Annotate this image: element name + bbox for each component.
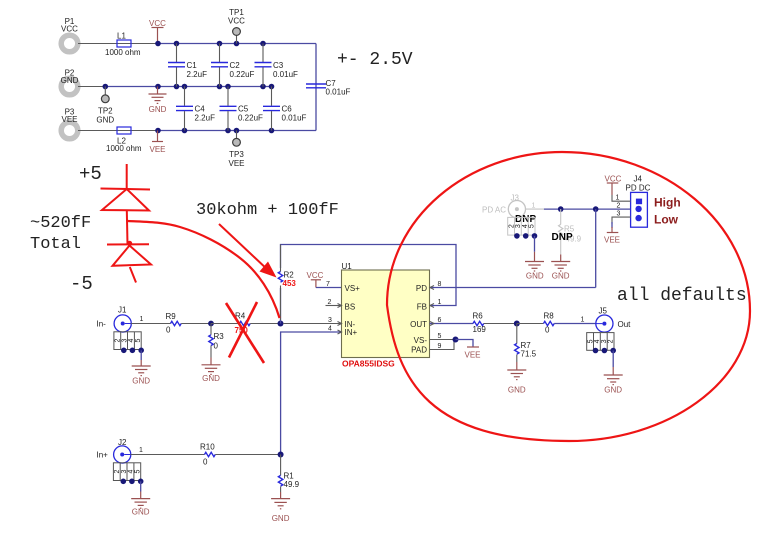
ground symbol R5: [551, 255, 570, 281]
svg-text:DNP: DNP: [552, 232, 573, 243]
svg-text:R6: R6: [473, 312, 484, 321]
svg-text:~520fF: ~520fF: [30, 214, 91, 233]
resistor R7 71.5: [515, 324, 537, 359]
wire right rail VCC to VEE: [315, 44, 317, 131]
wire R4 to IN- node: [250, 323, 280, 325]
svg-text:1: 1: [616, 195, 620, 202]
VEE power symbol (U1): [465, 347, 481, 360]
svg-text:VEE: VEE: [149, 145, 165, 154]
connector J4 PD DC: [626, 175, 651, 228]
svg-text:3: 3: [617, 211, 621, 218]
svg-text:R8: R8: [544, 312, 555, 321]
svg-text:2.2uF: 2.2uF: [187, 70, 208, 79]
resistor R2 453: [277, 245, 296, 321]
op-amp U1 OPA855IDSG: [342, 262, 430, 369]
svg-text:C2: C2: [230, 61, 241, 70]
svg-text:U1: U1: [342, 262, 353, 271]
svg-text:J4: J4: [634, 175, 643, 184]
svg-text:2: 2: [328, 299, 332, 306]
annotation arrow to R2: [219, 224, 277, 278]
svg-text:169: 169: [473, 325, 487, 334]
svg-text:FB: FB: [417, 303, 427, 312]
capacitor C7 0.01uF: [306, 79, 351, 97]
pin 5 VS- stub: [430, 339, 456, 341]
pin 3 J4 wire to VEE: [604, 211, 631, 245]
svg-text:J2: J2: [118, 438, 127, 447]
test point TP3 VEE: [228, 131, 244, 169]
node VS- junction: [453, 337, 459, 343]
node J3 net junction 2: [593, 206, 599, 212]
svg-text:5: 5: [529, 224, 536, 228]
svg-text:GND: GND: [604, 386, 622, 395]
VCC power symbol (top): [149, 19, 166, 44]
svg-text:R3: R3: [214, 332, 225, 341]
svg-text:In-: In-: [97, 320, 107, 329]
test point TP2 GND: [96, 87, 114, 125]
ground symbol R7: [507, 355, 526, 395]
wire J3 to J4 net: [544, 208, 631, 210]
svg-text:VCC: VCC: [605, 175, 622, 184]
connector J3 shield pins (grayed): [508, 217, 538, 238]
svg-text:0: 0: [166, 326, 171, 335]
svg-text:PD: PD: [416, 284, 427, 293]
svg-text:GND: GND: [552, 272, 570, 281]
pin 8 PD wire to J4: [430, 287, 596, 289]
svg-text:453: 453: [283, 279, 297, 288]
svg-text:+5: +5: [79, 163, 102, 185]
pin 9 PAD stub: [430, 341, 455, 350]
svg-text:J3: J3: [511, 194, 520, 203]
connector J5 shield pins 5-2: [587, 333, 616, 354]
svg-text:VCC: VCC: [228, 17, 245, 26]
svg-text:2.2uF: 2.2uF: [195, 114, 216, 123]
wire R6 to node OUT2: [484, 323, 517, 325]
connector J2 In+: [97, 438, 144, 463]
connector J1 In-: [97, 306, 144, 333]
svg-text:GND: GND: [272, 514, 290, 523]
svg-text:VS-: VS-: [414, 336, 428, 345]
capacitor C4 2.2uF: [176, 87, 215, 131]
svg-text:0.22uF: 0.22uF: [230, 70, 255, 79]
wire P3 to L2: [78, 130, 158, 132]
capacitor C2 0.22uF: [211, 44, 255, 87]
VCC rail wire: [158, 43, 316, 45]
svg-text:C4: C4: [195, 105, 206, 114]
svg-text:PD AC: PD AC: [482, 206, 506, 215]
connector J2 shield pins 2-5: [113, 463, 143, 484]
svg-text:0: 0: [203, 458, 208, 467]
svg-text:0: 0: [545, 326, 550, 335]
svg-text:VEE: VEE: [604, 236, 620, 245]
svg-text:Low: Low: [654, 213, 679, 227]
diode D-bottom (hand-drawn clamp to -5): [107, 244, 151, 282]
svg-text:GND: GND: [96, 116, 114, 125]
ground symbol J2: [131, 481, 150, 516]
node OUT2 junction: [514, 321, 520, 327]
wire VS- to VEE: [456, 340, 474, 348]
wire P1 to L1: [78, 43, 158, 45]
svg-text:0.01uF: 0.01uF: [282, 114, 307, 123]
wire R10 to node IN+: [215, 454, 280, 456]
GND rail wire: [105, 86, 271, 88]
svg-text:1: 1: [139, 447, 143, 454]
capacitor C5 0.22uF: [220, 87, 264, 131]
svg-text:2: 2: [608, 339, 615, 343]
node IN+ junction: [278, 452, 284, 458]
svg-text:1000 ohm: 1000 ohm: [106, 144, 142, 153]
node VEE rail junctions: [155, 128, 161, 134]
svg-text:30kohm + 100fF: 30kohm + 100fF: [196, 201, 339, 220]
wire P2 to GND rail: [78, 86, 105, 88]
wire PD vertical to J4: [595, 209, 597, 287]
svg-text:TP2: TP2: [98, 107, 113, 116]
svg-text:2: 2: [617, 203, 621, 210]
node GND rail junctions: [103, 84, 109, 90]
wire node A to R4: [211, 323, 240, 325]
svg-text:VS+: VS+: [345, 284, 361, 293]
svg-text:C3: C3: [273, 61, 284, 70]
red ellipse all defaults: [387, 152, 750, 441]
svg-text:C1: C1: [187, 61, 198, 70]
svg-text:C5: C5: [238, 105, 249, 114]
svg-text:1: 1: [532, 203, 536, 210]
ground symbol (power section): [149, 87, 167, 115]
pin 1 FB stub: [430, 304, 434, 308]
svg-text:BS: BS: [345, 303, 356, 312]
diode D-top (hand-drawn clamp to +5): [101, 164, 151, 244]
wire R9 to node A: [181, 323, 211, 325]
node A junction: [208, 321, 214, 327]
svg-text:TP3: TP3: [229, 150, 244, 159]
wire node OUT2 to R8: [517, 323, 544, 325]
VEE rail wire: [158, 130, 316, 132]
pin 2 BS stub: [326, 305, 342, 307]
svg-text:5: 5: [134, 470, 141, 474]
svg-text:GND: GND: [132, 377, 150, 386]
svg-text:1: 1: [140, 316, 144, 323]
ground symbol J5: [604, 351, 623, 395]
svg-text:Total: Total: [30, 235, 81, 254]
ground symbol J1: [132, 350, 151, 385]
svg-text:0.01uF: 0.01uF: [273, 70, 298, 79]
inductor L2 1000 ohm: [106, 127, 142, 153]
test point TP1 VCC: [228, 8, 245, 44]
svg-text:1000 ohm: 1000 ohm: [105, 48, 141, 57]
resistor R8 0: [544, 312, 555, 335]
svg-text:1: 1: [438, 299, 442, 306]
svg-text:C6: C6: [282, 105, 293, 114]
svg-text:L1: L1: [117, 32, 126, 41]
svg-text:1: 1: [581, 317, 585, 324]
svg-text:VCC: VCC: [307, 271, 324, 280]
node J3 net junction 1: [558, 206, 564, 212]
svg-text:GND: GND: [61, 76, 79, 85]
pin 4 IN+ wire: [281, 332, 342, 455]
svg-text:9: 9: [438, 343, 442, 350]
svg-text:+- 2.5V: +- 2.5V: [337, 50, 413, 70]
connector P2: [61, 69, 79, 95]
resistor R3 0: [209, 324, 224, 351]
red X over R4: [226, 302, 264, 363]
svg-text:In+: In+: [97, 451, 109, 460]
svg-text:3: 3: [328, 317, 332, 324]
svg-text:DNP: DNP: [515, 214, 536, 225]
ground symbol J3: [525, 236, 544, 281]
svg-text:71.5: 71.5: [521, 350, 537, 359]
connector J1 shield pins 2-5: [114, 332, 144, 353]
svg-text:4: 4: [328, 326, 332, 333]
svg-text:R10: R10: [200, 443, 215, 452]
resistor R6 169: [473, 312, 487, 335]
svg-text:GND: GND: [526, 272, 544, 281]
connector P3: [61, 108, 78, 139]
svg-text:VEE: VEE: [61, 115, 77, 124]
svg-text:6: 6: [438, 317, 442, 324]
svg-text:GND: GND: [508, 386, 526, 395]
resistor R9 0: [166, 312, 182, 335]
wire R8 to J5: [554, 323, 596, 325]
svg-text:VCC: VCC: [149, 19, 166, 28]
capacitor C6 0.01uF: [263, 87, 307, 131]
resistor R4 750 (crossed out): [235, 312, 251, 336]
node red junction dot: [127, 241, 132, 246]
inductor L1 1000 ohm: [105, 32, 141, 58]
connector P1: [61, 17, 78, 52]
connector J3 PD AC (DNP grayed): [482, 194, 544, 218]
svg-text:0: 0: [214, 342, 219, 351]
svg-text:IN+: IN+: [345, 328, 358, 337]
connector J5 Out: [581, 307, 632, 333]
svg-text:GND: GND: [202, 374, 220, 383]
svg-text:PAD: PAD: [411, 346, 427, 355]
svg-text:VEE: VEE: [465, 351, 481, 360]
resistor R1 49.9: [278, 455, 299, 490]
svg-text:49.9: 49.9: [284, 480, 300, 489]
resistor R10 0: [200, 443, 215, 467]
svg-text:all defaults: all defaults: [617, 286, 747, 306]
svg-text:GND: GND: [149, 105, 167, 114]
capacitor C3 0.01uF: [255, 44, 299, 87]
svg-text:PD DC: PD DC: [626, 184, 651, 193]
capacitor C1 2.2uF: [168, 44, 207, 87]
wire feedback top: [281, 245, 457, 324]
svg-text:7: 7: [326, 281, 330, 288]
svg-text:0.01uF: 0.01uF: [326, 88, 351, 97]
VCC power symbol (U1): [307, 271, 324, 288]
svg-text:OUT: OUT: [410, 320, 427, 329]
svg-text:8: 8: [438, 281, 442, 288]
svg-text:R9: R9: [166, 312, 177, 321]
svg-text:J1: J1: [118, 306, 127, 315]
wire red curve from diode node to IN- node: [128, 221, 280, 318]
VEE power symbol (power section): [149, 131, 165, 155]
node IN- junction: [278, 321, 284, 327]
ground symbol R1: [271, 486, 290, 523]
svg-text:5: 5: [135, 339, 142, 343]
wire J2 to R10: [131, 454, 205, 456]
svg-text:VCC: VCC: [61, 25, 78, 34]
pin 1 J4 wire from VCC: [605, 175, 631, 202]
node VCC rail junctions: [155, 41, 161, 47]
pin 3 IN- stub: [283, 323, 342, 325]
ground symbol R3: [202, 346, 221, 384]
svg-text:GND: GND: [132, 508, 150, 517]
svg-text:5: 5: [438, 333, 442, 340]
svg-text:OPA855IDSG: OPA855IDSG: [342, 359, 395, 369]
svg-text:J5: J5: [599, 307, 608, 316]
pin 6 OUT wire: [430, 323, 474, 325]
wire VCC to pin 7: [316, 287, 342, 289]
svg-text:0.22uF: 0.22uF: [238, 114, 263, 123]
svg-text:High: High: [654, 196, 681, 210]
svg-text:VEE: VEE: [228, 159, 244, 168]
svg-text:-5: -5: [70, 273, 93, 295]
svg-text:Out: Out: [618, 320, 632, 329]
resistor R5 49.9 (DNP grayed): [559, 209, 582, 254]
wire J1 to R9: [131, 323, 171, 325]
